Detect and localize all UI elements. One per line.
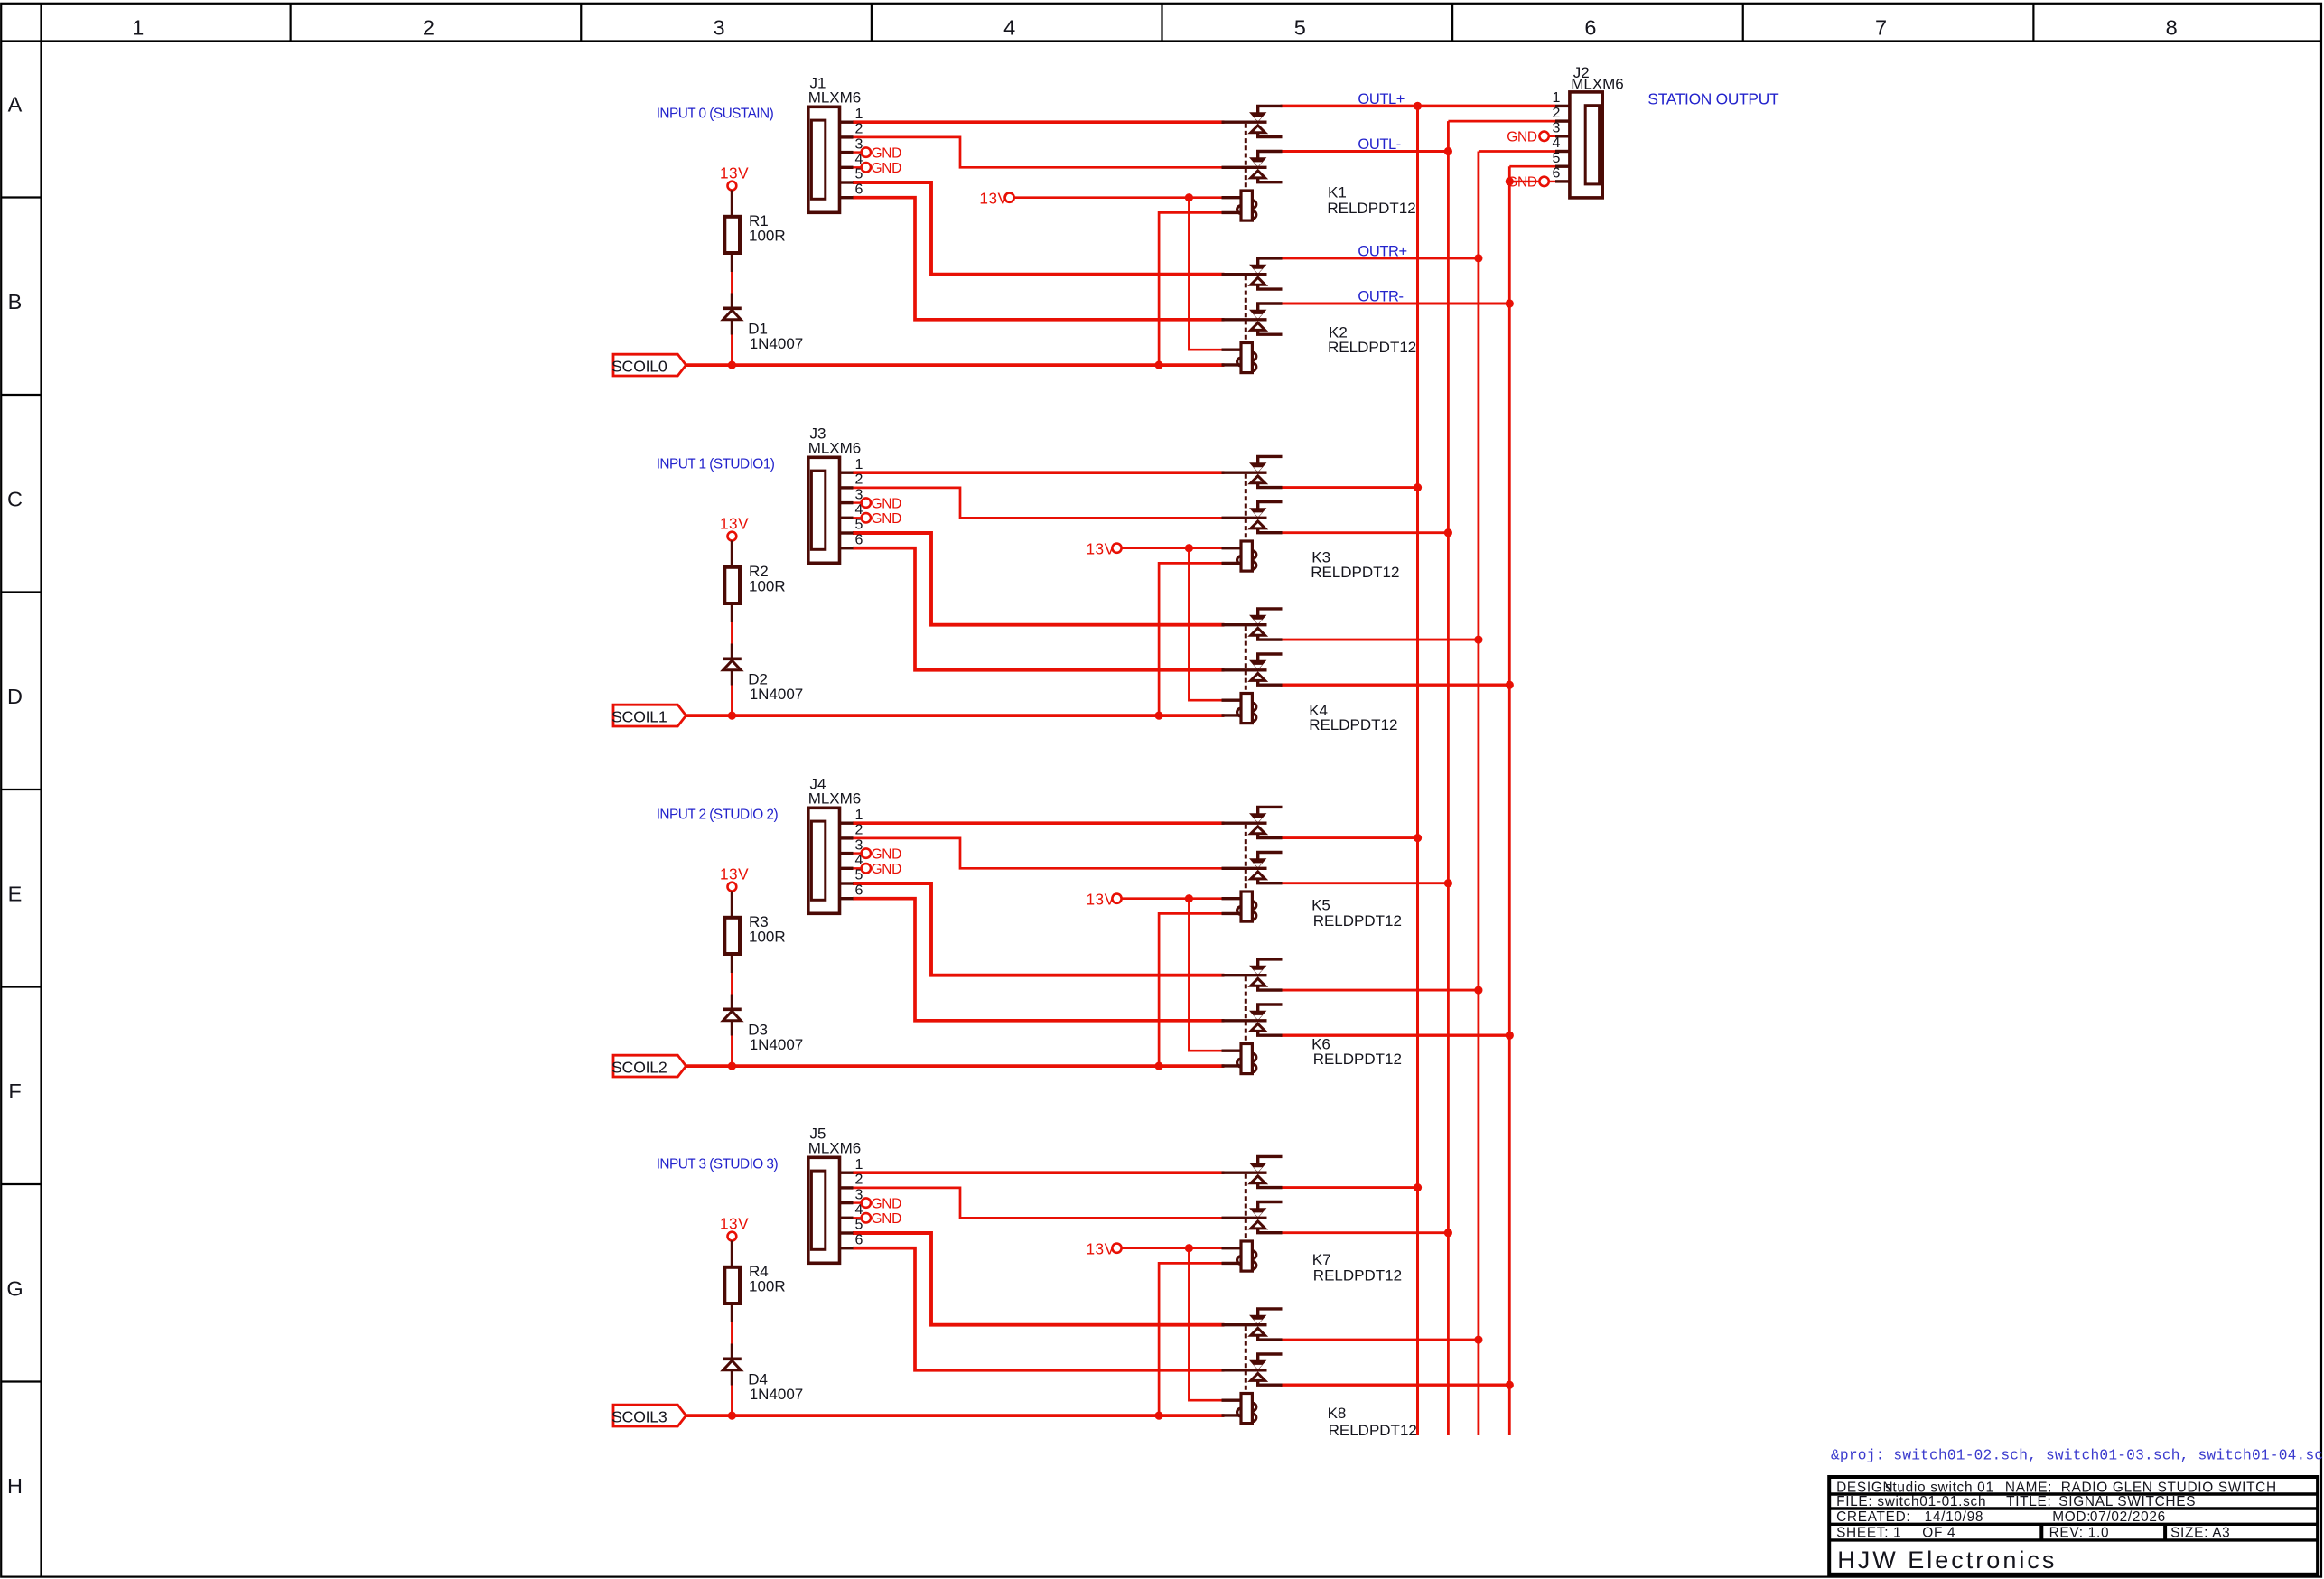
svg-text:SCOIL2: SCOIL2 xyxy=(611,1059,667,1077)
svg-text:GND: GND xyxy=(872,862,902,877)
svg-text:4: 4 xyxy=(1553,135,1561,151)
title block frame xyxy=(1829,1477,2318,1574)
svg-text:13V: 13V xyxy=(720,1214,749,1232)
svg-text:K1: K1 xyxy=(1328,183,1347,201)
wire J2 pin4 to OUTR+ bus xyxy=(1479,150,1555,153)
svg-text:GND: GND xyxy=(872,145,902,161)
net flag SCOIL1 xyxy=(611,705,686,726)
svg-text:K5: K5 xyxy=(1311,897,1330,914)
relay coil K1 xyxy=(1222,191,1256,220)
svg-text:RELDPDT12: RELDPDT12 xyxy=(1327,200,1415,217)
svg-text:1: 1 xyxy=(854,808,863,823)
svg-text:C: C xyxy=(7,488,23,511)
svg-text:2: 2 xyxy=(854,122,863,137)
svg-text:100R: 100R xyxy=(749,1278,786,1295)
svg-text:6: 6 xyxy=(854,182,863,197)
junction OUTR- bus at K8 xyxy=(1506,1381,1514,1389)
wire OUTL- net xyxy=(1281,150,1449,153)
junction OUTR+ bus at K4 xyxy=(1474,636,1482,644)
relay contact K1 pole 1 xyxy=(1222,106,1283,136)
ground symbol GND at J5 pin 3 xyxy=(854,1196,902,1211)
wire K7 coil return to SCOIL xyxy=(1159,1263,1224,1415)
relay contact K2 pole 1 xyxy=(1222,258,1283,289)
diode D4 (1N4007) xyxy=(723,1344,742,1386)
connector J4 (MLXM6 6-pin) xyxy=(808,808,854,913)
supply 13V (resistor chain) xyxy=(720,164,749,190)
junction SCOIL3 at D4 xyxy=(728,1412,736,1420)
svg-text:MOD:: MOD: xyxy=(2052,1509,2091,1525)
relay contact K4 pole 2 xyxy=(1222,654,1283,685)
junction 13V node block 3 xyxy=(1185,1244,1193,1252)
wire OUTL+ net xyxy=(1281,105,1556,108)
svg-text:GND: GND xyxy=(872,846,902,862)
svg-text:3: 3 xyxy=(1553,121,1561,136)
svg-text:SIGNAL SWITCHES: SIGNAL SWITCHES xyxy=(2058,1494,2196,1509)
svg-text:MLXM6: MLXM6 xyxy=(808,439,862,456)
svg-text:8: 8 xyxy=(2166,15,2178,39)
mechanical link of K5 xyxy=(1245,825,1247,892)
svg-text:REV: 1.0: REV: 1.0 xyxy=(2049,1525,2110,1540)
svg-text:RADIO GLEN STUDIO SWITCH: RADIO GLEN STUDIO SWITCH xyxy=(2061,1480,2277,1495)
junction OUTL- bus at K5 xyxy=(1444,879,1452,887)
svg-text:INPUT 0 (SUSTAIN): INPUT 0 (SUSTAIN) xyxy=(657,107,774,122)
wire K5 coil return to SCOIL xyxy=(1159,913,1224,1066)
svg-text:1N4007: 1N4007 xyxy=(750,1036,804,1053)
net flag SCOIL0 xyxy=(611,354,686,376)
wire J2 pin5 to OUTR- bus xyxy=(1509,165,1555,168)
junction 13V node block 2 xyxy=(1185,894,1193,902)
junction SCOIL0 at D1 xyxy=(728,361,736,369)
svg-text:RELDPDT12: RELDPDT12 xyxy=(1313,1051,1402,1068)
svg-text:100R: 100R xyxy=(749,578,786,595)
svg-text:D: D xyxy=(7,685,23,708)
junction 13V node block 0 xyxy=(1185,193,1193,201)
wire J3 pin2 to K3 pole2 common xyxy=(853,488,1225,518)
wire K8 pole1 NO to OUTR+ bus xyxy=(1281,1339,1479,1341)
wire 13V supply to K5 coil xyxy=(1122,897,1225,900)
resistor R1 xyxy=(724,191,740,273)
wire J5 pin6 to K8 pole2 common xyxy=(853,1248,1225,1370)
svg-text:&proj: switch01-02.sch, switch: &proj: switch01-02.sch, switch01-03.sch,… xyxy=(1831,1448,2324,1464)
svg-text:GND: GND xyxy=(872,161,902,176)
net flag SCOIL2 xyxy=(611,1055,686,1077)
svg-text:GND: GND xyxy=(1507,130,1537,145)
wire OUTR- bus vertical xyxy=(1508,166,1511,1435)
ground symbol GND at J4 pin 4 xyxy=(854,862,902,877)
junction SCOIL1 at K3 return xyxy=(1155,712,1163,720)
column ticks top ruler xyxy=(291,4,2034,42)
wire 13V feed to K6 coil xyxy=(1189,899,1224,1051)
svg-text:E: E xyxy=(8,883,23,906)
supply 13V (resistor chain) xyxy=(720,864,749,891)
svg-text:B: B xyxy=(8,290,23,313)
title block row CREATED/MOD xyxy=(1836,1509,2166,1525)
svg-text:4: 4 xyxy=(1003,15,1015,39)
connector J2 (MLXM6 6-pin, station output) xyxy=(1555,92,1602,198)
svg-text:G: G xyxy=(6,1277,23,1301)
resistor R2 xyxy=(724,541,740,623)
svg-text:6: 6 xyxy=(1584,15,1596,39)
junction OUTL- bus at K3 xyxy=(1444,528,1452,537)
ground symbol GND at J1 pin 4 xyxy=(854,161,902,176)
relay coil K3 xyxy=(1222,541,1256,571)
svg-text:2: 2 xyxy=(854,1173,863,1188)
junction GND tap on bus at J2 pin 6 xyxy=(1506,177,1514,185)
junction OUTR+ bus top xyxy=(1474,254,1482,262)
junction OUTR+ bus at K8 xyxy=(1474,1336,1482,1344)
svg-text:K8: K8 xyxy=(1328,1405,1347,1422)
svg-text:6: 6 xyxy=(854,883,863,898)
svg-text:STATION OUTPUT: STATION OUTPUT xyxy=(1647,89,1779,107)
junction OUTR- bus top xyxy=(1506,299,1514,307)
ground symbol GND at J3 pin 4 xyxy=(854,511,902,527)
relay contact K3 pole 1 xyxy=(1222,456,1283,487)
wire J3 pin1 to K3 pole1 common xyxy=(853,471,1225,474)
junction SCOIL2 at K5 return xyxy=(1155,1062,1163,1070)
svg-text:7: 7 xyxy=(1875,15,1887,39)
junction OUTL+ at J2 pin1 tap xyxy=(1414,102,1422,110)
wire 13V supply to K3 coil xyxy=(1122,547,1225,549)
mechanical link of K2 xyxy=(1245,276,1247,342)
wire J4 pin1 to K5 pole1 common xyxy=(853,821,1225,825)
wire K3 coil return to SCOIL xyxy=(1159,563,1224,715)
wire J1 pin5 to K2 pole1 common xyxy=(853,182,1225,275)
supply 13V (resistor chain) xyxy=(720,1214,749,1240)
wire J3 pin5 to K4 pole1 common xyxy=(853,533,1225,625)
wire OUTL+ bus vertical xyxy=(1416,106,1419,1435)
svg-text:FILE: switch01-01.sch: FILE: switch01-01.sch xyxy=(1836,1494,1986,1509)
svg-text:RELDPDT12: RELDPDT12 xyxy=(1329,1422,1417,1439)
junction SCOIL1 at D2 xyxy=(728,712,736,720)
wire K4 pole2 NO to OUTR- bus xyxy=(1281,684,1510,687)
junction OUTR+ bus at K6 xyxy=(1474,986,1482,995)
svg-text:6: 6 xyxy=(854,1232,863,1247)
wire 13V feed to K8 coil xyxy=(1189,1248,1224,1401)
svg-text:INPUT 1 (STUDIO1): INPUT 1 (STUDIO1) xyxy=(657,457,775,472)
ground symbol GND at J4 pin 3 xyxy=(854,846,902,862)
title block row SHEET/REV/SIZE xyxy=(1836,1525,2230,1540)
wire SCOIL3 net xyxy=(686,1414,1225,1417)
svg-text:13V: 13V xyxy=(720,164,749,182)
svg-text:OUTL-: OUTL- xyxy=(1358,136,1401,153)
svg-text:5: 5 xyxy=(1553,151,1561,166)
connector J1 (MLXM6 6-pin) xyxy=(808,107,854,212)
wire J5 pin2 to K7 pole2 common xyxy=(853,1188,1225,1218)
row ticks left ruler xyxy=(1,198,41,1382)
svg-text:SCOIL3: SCOIL3 xyxy=(611,1408,667,1426)
wire J5 pin1 to K7 pole1 common xyxy=(853,1171,1225,1174)
svg-text:INPUT 3 (STUDIO 3): INPUT 3 (STUDIO 3) xyxy=(657,1157,779,1173)
svg-text:1: 1 xyxy=(854,1157,863,1173)
supply 13V (resistor chain) xyxy=(720,514,749,540)
svg-text:13V: 13V xyxy=(1087,540,1115,558)
svg-text:NAME:: NAME: xyxy=(2005,1480,2052,1495)
wire J1 pin1 to K1 pole1 common xyxy=(853,120,1225,124)
svg-text:INPUT 2 (STUDIO 2): INPUT 2 (STUDIO 2) xyxy=(657,808,779,823)
svg-text:1N4007: 1N4007 xyxy=(750,335,804,352)
junction OUTR- bus at K4 xyxy=(1506,681,1514,689)
net flag SCOIL3 xyxy=(611,1405,686,1426)
supply 13V (relay coils) xyxy=(1087,891,1122,909)
resistor R4 xyxy=(724,1241,740,1323)
wire K5 pole1 NO to OUTL+ bus xyxy=(1281,836,1418,839)
svg-text:SHEET: 1: SHEET: 1 xyxy=(1836,1525,1901,1540)
svg-text:HJW Electronics: HJW Electronics xyxy=(1837,1546,2057,1574)
junction OUTL+ bus at K7 xyxy=(1414,1183,1422,1191)
relay contact K6 pole 1 xyxy=(1222,959,1283,990)
diode D1 (1N4007) xyxy=(723,294,742,335)
wire OUTR- net xyxy=(1281,303,1510,305)
junction OUTR- bus at K6 xyxy=(1506,1032,1514,1040)
svg-text:MLXM6: MLXM6 xyxy=(808,89,862,106)
wire K1 coil return to SCOIL xyxy=(1159,212,1224,365)
relay coil K7 xyxy=(1222,1241,1256,1271)
title block row DESIGN/NAME xyxy=(1836,1480,2277,1495)
wire 13V to R2 to D2 xyxy=(731,619,733,645)
relay contact K5 pole 1 xyxy=(1222,807,1283,837)
svg-text:H: H xyxy=(7,1474,23,1498)
ground symbol GND at J3 pin 3 xyxy=(854,496,902,511)
svg-text:100R: 100R xyxy=(749,228,786,245)
wire K3 pole2 NO to OUTL- bus xyxy=(1281,531,1449,534)
ground symbol GND at J2 pin 6 xyxy=(1507,175,1555,191)
relay contact K8 pole 2 xyxy=(1222,1354,1283,1385)
svg-text:OUTR-: OUTR- xyxy=(1358,288,1403,304)
svg-text:SCOIL0: SCOIL0 xyxy=(611,358,667,376)
svg-text:6: 6 xyxy=(1553,166,1561,182)
relay contact K7 pole 1 xyxy=(1222,1156,1283,1187)
svg-text:A: A xyxy=(8,93,23,117)
relay coil K5 xyxy=(1222,892,1256,921)
svg-text:MLXM6: MLXM6 xyxy=(1571,76,1624,93)
svg-text:RELDPDT12: RELDPDT12 xyxy=(1313,1267,1402,1285)
svg-text:RELDPDT12: RELDPDT12 xyxy=(1309,716,1397,733)
mechanical link of K7 xyxy=(1245,1174,1247,1241)
connector J3 (MLXM6 6-pin) xyxy=(808,457,854,563)
wire OUTR+ bus vertical xyxy=(1478,152,1480,1436)
relay coil K6 xyxy=(1222,1044,1256,1074)
junction SCOIL3 at K7 return xyxy=(1155,1412,1163,1420)
supply 13V (relay coils) xyxy=(1087,540,1122,558)
svg-text:TITLE:: TITLE: xyxy=(2006,1494,2051,1509)
svg-text:2: 2 xyxy=(423,15,434,39)
relay contact K5 pole 2 xyxy=(1222,853,1283,883)
svg-text:13V: 13V xyxy=(1087,891,1115,909)
svg-text:13V: 13V xyxy=(720,864,749,883)
svg-text:K7: K7 xyxy=(1312,1251,1331,1268)
wire SCOIL2 net xyxy=(686,1064,1225,1068)
wire J4 pin6 to K6 pole2 common xyxy=(853,899,1225,1021)
resistor R3 xyxy=(724,892,740,974)
relay contact K7 pole 2 xyxy=(1222,1202,1283,1233)
supply 13V (relay coils) xyxy=(979,190,1013,208)
mechanical link of K6 xyxy=(1245,976,1247,1043)
junction 13V node block 1 xyxy=(1185,544,1193,552)
relay contact K1 pole 2 xyxy=(1222,152,1283,182)
svg-text:OUTL+: OUTL+ xyxy=(1358,91,1405,107)
relay contact K3 pole 2 xyxy=(1222,502,1283,533)
wire 13V to R3 to D3 xyxy=(731,969,733,995)
relay coil K2 xyxy=(1222,343,1256,373)
wire OUTL- bus vertical xyxy=(1447,121,1450,1435)
mechanical link of K8 xyxy=(1245,1326,1247,1393)
mechanical link of K1 xyxy=(1245,124,1247,191)
svg-text:GND: GND xyxy=(872,496,902,511)
junction OUTL+ bus at K3 xyxy=(1414,483,1422,491)
svg-text:100R: 100R xyxy=(749,929,786,946)
wire 13V feed to K4 coil xyxy=(1189,548,1224,701)
svg-text:1: 1 xyxy=(854,107,863,122)
svg-text:07/02/2026: 07/02/2026 xyxy=(2090,1509,2166,1525)
relay contact K6 pole 2 xyxy=(1222,1004,1283,1035)
diode D3 (1N4007) xyxy=(723,995,742,1036)
supply 13V (relay coils) xyxy=(1087,1240,1122,1258)
svg-text:1: 1 xyxy=(854,457,863,472)
wire J1 pin6 to K2 pole2 common xyxy=(853,198,1225,320)
junction OUTL- bus top xyxy=(1444,147,1452,155)
svg-text:2: 2 xyxy=(854,472,863,488)
wire K3 pole1 NO to OUTL+ bus xyxy=(1281,486,1418,489)
ground symbol GND at J2 pin 3 xyxy=(1507,130,1555,145)
wire OUTR+ net xyxy=(1281,257,1479,259)
svg-text:1N4007: 1N4007 xyxy=(750,686,804,703)
wire K5 pole2 NO to OUTL- bus xyxy=(1281,882,1449,884)
svg-text:1: 1 xyxy=(1553,90,1561,106)
svg-text:1N4007: 1N4007 xyxy=(750,1386,804,1403)
svg-text:CREATED:: CREATED: xyxy=(1836,1509,1910,1525)
svg-text:13V: 13V xyxy=(1087,1240,1115,1258)
junction SCOIL0 at K1 return xyxy=(1155,361,1163,369)
svg-text:6: 6 xyxy=(854,532,863,547)
svg-text:GND: GND xyxy=(872,511,902,527)
wire K7 pole1 NO to OUTL+ bus xyxy=(1281,1186,1418,1189)
wire 13V supply to K1 coil xyxy=(1014,196,1225,199)
svg-text:2: 2 xyxy=(1553,106,1561,121)
wire SCOIL0 net xyxy=(686,363,1225,367)
svg-text:14/10/98: 14/10/98 xyxy=(1925,1509,1984,1525)
svg-text:MLXM6: MLXM6 xyxy=(808,789,862,807)
svg-text:1: 1 xyxy=(132,15,144,39)
title block row FILE/TITLE xyxy=(1836,1494,2196,1509)
svg-text:3: 3 xyxy=(714,15,725,39)
svg-text:OUTR+: OUTR+ xyxy=(1358,243,1406,259)
svg-text:5: 5 xyxy=(1294,15,1306,39)
wire K6 pole1 NO to OUTR+ bus xyxy=(1281,989,1479,992)
connector J5 (MLXM6 6-pin) xyxy=(808,1157,854,1263)
svg-text:GND: GND xyxy=(872,1196,902,1211)
svg-text:RELDPDT12: RELDPDT12 xyxy=(1328,339,1416,356)
junction OUTL+ bus at K5 xyxy=(1414,834,1422,842)
svg-text:13V: 13V xyxy=(720,514,749,532)
relay contact K4 pole 1 xyxy=(1222,609,1283,640)
wire 13V feed to K2 coil xyxy=(1189,198,1224,350)
relay contact K2 pole 2 xyxy=(1222,304,1283,334)
wire J5 pin5 to K8 pole1 common xyxy=(853,1233,1225,1325)
svg-text:SIZE: A3: SIZE: A3 xyxy=(2170,1525,2230,1540)
wire J1 pin2 to K1 pole2 common xyxy=(853,137,1225,167)
wire J3 pin6 to K4 pole2 common xyxy=(853,548,1225,670)
ground symbol GND at J5 pin 4 xyxy=(854,1211,902,1227)
relay coil K4 xyxy=(1222,694,1256,724)
wire K4 pole1 NO to OUTR+ bus xyxy=(1281,639,1479,641)
relay contact K8 pole 1 xyxy=(1222,1309,1283,1340)
wire J4 pin5 to K6 pole1 common xyxy=(853,883,1225,976)
svg-text:OF 4: OF 4 xyxy=(1922,1525,1955,1540)
svg-text:2: 2 xyxy=(854,823,863,838)
svg-text:MLXM6: MLXM6 xyxy=(808,1139,862,1156)
wire K8 pole2 NO to OUTR- bus xyxy=(1281,1384,1510,1387)
diode D2 (1N4007) xyxy=(723,644,742,686)
wire 13V to R4 to D4 xyxy=(731,1319,733,1345)
ground symbol GND at J1 pin 3 xyxy=(854,145,902,161)
mechanical link of K3 xyxy=(1245,474,1247,541)
junction SCOIL2 at D3 xyxy=(728,1062,736,1070)
svg-text:F: F xyxy=(8,1079,21,1103)
svg-text:RELDPDT12: RELDPDT12 xyxy=(1313,912,1402,930)
junction OUTL- bus at K7 xyxy=(1444,1229,1452,1237)
wire J4 pin2 to K5 pole2 common xyxy=(853,838,1225,868)
wire 13V to R1 to D1 xyxy=(731,268,733,294)
wire K6 pole2 NO to OUTR- bus xyxy=(1281,1034,1510,1037)
wire SCOIL1 net xyxy=(686,714,1225,717)
wire J2 pin2 to OUTL- bus xyxy=(1448,120,1555,123)
svg-text:SCOIL1: SCOIL1 xyxy=(611,708,667,726)
svg-text:RELDPDT12: RELDPDT12 xyxy=(1311,564,1399,581)
wire 13V supply to K7 coil xyxy=(1122,1247,1225,1249)
svg-text:studio switch 01: studio switch 01 xyxy=(1885,1480,1994,1495)
wire K7 pole2 NO to OUTL- bus xyxy=(1281,1231,1449,1234)
mechanical link of K4 xyxy=(1245,626,1247,693)
svg-text:GND: GND xyxy=(872,1211,902,1227)
relay coil K8 xyxy=(1222,1394,1256,1424)
